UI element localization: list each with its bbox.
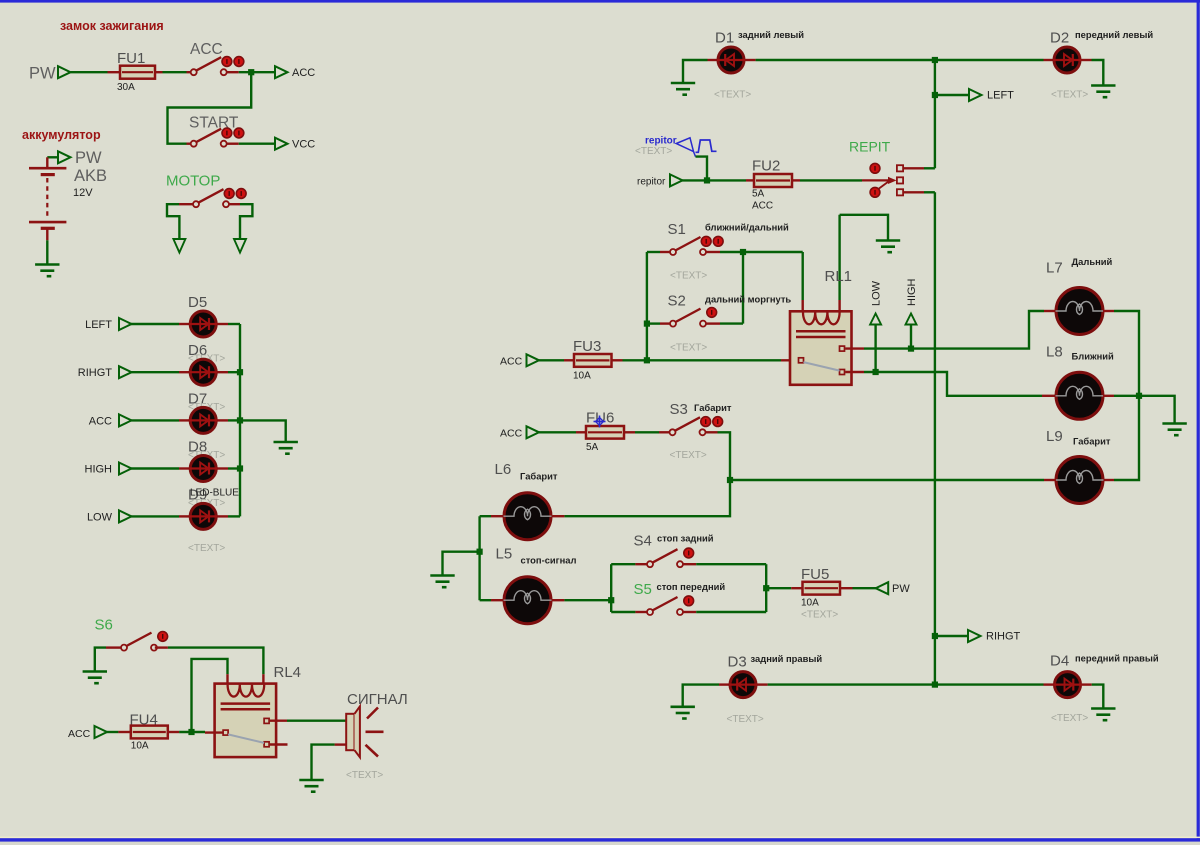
label S1 [668,221,686,238]
wire RL1 coil right vertical [838,215,840,300]
label FU6 [586,410,614,427]
wire LOW arrow stem [874,325,876,373]
svg-text:FU2: FU2 [752,158,780,175]
junction bus at D8 [237,465,243,471]
svg-text:<TEXT>: <TEXT> [346,770,383,781]
value 10A of FU4 [131,741,149,752]
label S2 [668,293,686,310]
wire L5 right lead [552,599,565,601]
wire S1 right lead [706,251,720,253]
svg-text:PW: PW [892,583,910,595]
svg-text:стоп передний: стоп передний [657,581,726,592]
wire START right lead [227,142,239,144]
wire to ACC output terminal [239,71,276,73]
svg-text:<TEXT>: <TEXT> [670,271,707,282]
svg-text:D3: D3 [728,654,747,671]
label "ближний/дальний" [705,222,789,233]
label "передний левый" [1075,29,1153,40]
svg-text:LED-BLUE: LED-BLUE [190,488,239,499]
junction L5 on S4-S5 left vertical [608,597,614,603]
label "Ближний" [1072,351,1115,362]
junction Габарит bus [727,477,733,483]
placeholder TEXT under D9 [188,543,225,554]
net label PW (input) [29,65,56,83]
wire MOTOR left lead [179,203,193,205]
horn speaker СИГНАЛ [346,706,383,757]
svg-text:<TEXT>: <TEXT> [635,146,672,157]
value 5A of FU2 [752,189,765,200]
svg-text:ACC: ACC [500,356,523,368]
junction FU3 wire [644,357,650,363]
wire ACC switch right lead [227,71,239,73]
terminal RIHGT [968,630,981,642]
wire S1 left lead [660,251,670,253]
label "Габарит" (S3) [694,402,732,413]
svg-text:ACC: ACC [68,728,91,740]
net label VCC [292,139,315,151]
svg-text:<TEXT>: <TEXT> [1051,713,1088,724]
switch START [191,128,244,147]
wire D1 to D2 [756,59,935,61]
label D2 [1050,30,1069,47]
svg-text:дальний моргнуть: дальний моргнуть [705,294,791,305]
wire terminal to FU3 [539,359,565,361]
wire FU2 right lead [792,179,800,181]
relay RL4 [215,684,277,758]
label L7 [1046,260,1063,277]
ground at D3 [671,706,695,719]
wire D1 right lead [745,59,756,61]
svg-text:10A: 10A [131,741,149,752]
LED D2 [1053,47,1081,73]
wire LEFT vertical from D1-D2 down to flasher [934,60,936,168]
placeholder TEXT of D8 [188,450,225,461]
placeholder TEXT of D2 [1051,90,1088,101]
wire ACC terminal to D7 [131,419,179,421]
label RL1 [825,268,853,285]
svg-text:D2: D2 [1050,30,1069,47]
junction S2 tap on S1 wire [740,249,746,255]
wire into START switch left contact [187,142,192,144]
placeholder TEXT of D7 [188,402,225,413]
wire D3 to ground [683,685,719,706]
wire MOTOR left zigzag down [167,204,179,239]
LED D4 [1054,672,1082,698]
placeholder TEXT of S1 [670,271,707,282]
wire FU3 right lead [612,359,623,361]
svg-text:Габарит: Габарит [1073,436,1111,447]
wire D6 anode lead [179,371,189,373]
switch S3 [670,417,723,436]
label FU1 [117,50,145,67]
wire D4 to ground [1092,685,1104,708]
wire L9 left lead [1044,479,1056,481]
top blue window border [0,0,1200,3]
wire D3 left lead [719,683,729,685]
wire D4 left lead [1044,683,1054,685]
terminal LEFT input [119,318,132,330]
lamp L8 [1056,372,1104,419]
svg-text:МОТОР: МОТОР [166,173,220,190]
wire Габарит bus to L9 [730,479,1044,481]
wire L7 right lead [1103,310,1114,312]
wire to VCC terminal [239,142,276,144]
wire to horn positive [287,720,346,722]
label START switch [189,115,239,132]
blue origin marker on FU6 [594,416,606,428]
wire D1 to ground [683,60,708,82]
wire S5 right lead [683,611,696,613]
wire LOW terminal to D9 [131,515,179,517]
wire D8 to cathode bus [228,467,240,469]
wire FU5 right lead [840,587,853,589]
junction bus at D7 [237,417,243,423]
svg-text:HIGH: HIGH [85,464,113,476]
label "стоп передний" [657,581,726,592]
wire flasher bottom contact lead [903,191,924,193]
net label LOW [87,511,113,523]
wire bus to ground [240,420,286,441]
wire generator to repitor net [696,157,708,181]
ground below flasher [876,240,900,253]
svg-text:repitor: repitor [645,136,677,147]
wire D9 cathode lead [217,515,228,517]
wire FU2 left lead [746,179,755,181]
value 30A of FU1 [117,82,135,93]
net label LEFT [85,319,112,331]
junction LOW tap [873,369,879,375]
lamp L6 [504,493,552,540]
wire L9 right lead [1103,479,1114,481]
svg-text:RIHGT: RIHGT [986,631,1021,643]
label D3 [728,654,747,671]
svg-text:стоп задний: стоп задний [657,533,714,544]
label D7 [188,390,207,407]
svg-text:repitor: repitor [637,177,666,188]
svg-text:<TEXT>: <TEXT> [727,714,764,725]
svg-text:LOW: LOW [871,280,883,306]
wire RL1 NC to L8 [864,372,1042,396]
label "передний правый" [1075,653,1159,664]
label D1 [715,30,734,47]
label S3 [670,401,688,418]
svg-text:Дальний: Дальний [1072,256,1113,267]
svg-text:L5: L5 [496,546,513,563]
wire S4 right lead [683,563,696,565]
wire D5 cathode lead [217,323,228,325]
wire FU6 right lead [624,431,635,433]
wire RL1 coil left lead [802,300,804,312]
svg-text:S1: S1 [668,221,686,238]
terminal LOW (up arrow) [870,314,881,325]
placeholder TEXT of D6 [188,354,225,365]
label D5 [188,294,207,311]
wire D2 to ground [1092,60,1104,85]
svg-text:HIGH: HIGH [906,278,918,306]
wire D7 anode lead [179,419,189,421]
wire S2 right lead [706,322,720,324]
svg-text:10A: 10A [573,371,591,382]
wire flasher top to LEFT vertical [924,167,935,169]
wire MOTOR right zigzag down [240,204,252,239]
title "аккумулятор" [22,128,101,142]
wire S6 left lead [106,646,121,648]
svg-text:5A: 5A [752,189,765,200]
ground at D2 [1091,85,1115,98]
svg-text:<TEXT>: <TEXT> [188,543,225,554]
flasher REPIT indicator dot down [870,187,880,197]
svg-text:S5: S5 [634,581,652,598]
wire S4-S5 left vertical [610,564,612,612]
wire S2 right vertical up [742,252,744,324]
fuse FU4 [131,726,168,739]
switch MOTOR [193,189,246,208]
ground of lamps [1162,423,1186,436]
wire S5 left lead [635,611,647,613]
LED D7 [189,407,217,433]
wire FU5 left lead [791,587,803,589]
svg-text:S4: S4 [634,533,652,550]
wire FU6 to S3 [635,431,659,433]
terminal PW input [58,66,71,78]
label ACC switch [190,41,223,58]
flasher REPIT indicator dot up [870,163,880,173]
flasher REPIT contacts [897,165,903,195]
wire L6 left to vertical [480,515,491,517]
wire right bus down to L9 [1114,396,1139,480]
placeholder TEXT of horn [346,770,383,781]
wire S1-S2 left vertical [646,252,648,360]
value ACC of FU2 [752,201,773,212]
lamp L7 [1056,288,1104,335]
svg-text:AKB: AKB [74,167,107,185]
wire L7 left lead [1044,310,1056,312]
wire S1 right to RL1 coil branch [720,251,803,253]
wire RL4 NO contact to horn [270,720,287,722]
net label ACC (output) [292,67,315,79]
wire ACC junction down to START switch [168,72,252,144]
value 12V of battery [73,187,93,199]
svg-text:30A: 30A [117,82,135,93]
label FU5 [801,566,829,583]
svg-text:<TEXT>: <TEXT> [1051,90,1088,101]
terminal PW (stop light feed) [876,582,889,594]
label D8 [188,439,207,456]
net label RIHGT [78,367,113,379]
net label ACC at FU6 [500,428,523,440]
svg-text:FU5: FU5 [801,566,829,583]
junction lamps ground tap [477,549,483,555]
ground at D1 [671,82,695,95]
svg-text:LEFT: LEFT [85,319,112,331]
label S4 [634,533,652,550]
wire FU1 left lead [108,71,121,73]
switch ACC (ignition) [191,57,244,76]
label LED-BLUE [190,488,239,499]
LED D5 [189,311,217,337]
label REPIT [849,139,891,155]
net label PW at FU5 [892,583,910,595]
wire HIGH terminal to D8 [131,467,179,469]
wire RL4 coil left lead [226,674,228,685]
svg-text:S2: S2 [668,293,686,310]
svg-text:аккумулятор: аккумулятор [22,128,101,142]
switch S4 [647,548,694,567]
svg-text:ACC: ACC [190,41,223,58]
svg-text:ACC: ACC [89,415,112,427]
wire LEFT terminal to D5 [131,323,179,325]
label "Габарит" (L6) [520,471,558,482]
wire L6 right lead [553,515,565,517]
node junction at ACC output [248,69,254,75]
LED D9 [189,503,217,529]
wire L5 to S4-S5 block [564,599,611,601]
wire terminal to FU6 [539,431,577,433]
svg-text:PW: PW [29,65,56,83]
placeholder TEXT of S3 [670,450,707,461]
wire S5 to right vertical [696,611,766,613]
junction HIGH tap [908,346,914,352]
wire FU6 left lead [576,431,587,433]
net label ACC [89,415,112,427]
svg-text:RIHGT: RIHGT [78,367,113,379]
ground at D4 [1091,708,1115,721]
wire flasher top contact lead [903,167,924,169]
bottom pale highlight line [0,837,1200,839]
wire S3 to Габарит junction [564,432,730,516]
svg-text:FU3: FU3 [573,338,601,355]
svg-text:ACC: ACC [500,428,523,440]
terminal repitor input [670,174,683,186]
junction S2 left [644,321,650,327]
placeholder TEXT of FU5 [801,610,838,621]
net label ACC at FU4 [68,728,91,740]
net label PW at battery [75,149,102,167]
svg-text:Габарит: Габарит [520,471,558,482]
svg-text:передний левый: передний левый [1075,29,1153,40]
junction FU4 / coil feed [188,729,194,735]
wire junction to D4 [935,683,1044,685]
net label HIGH [85,464,113,476]
wire FU4 right lead [168,731,179,733]
LED D8 [189,456,217,482]
junction LEFT feed on D1-D2 wire [932,57,938,63]
right blue window border [1197,0,1200,841]
wire to RIHGT terminal [935,635,969,637]
label MOTOP [166,173,220,190]
junction at RIHGT terminal [932,633,938,639]
svg-text:ACC: ACC [752,201,773,212]
svg-text:задний правый: задний правый [751,653,823,664]
LED D3 [729,672,757,698]
wire RL1 NO lead [845,347,864,349]
svg-text:<TEXT>: <TEXT> [714,90,751,101]
label FU2 [752,158,780,175]
wire S6 left to ground [95,648,106,671]
net label LOW [871,280,883,306]
svg-text:замок зажигания: замок зажигания [60,19,164,33]
label "задний правый" [751,653,823,664]
fuse FU1 [120,66,155,79]
net label LEFT [987,90,1014,102]
terminal ACC input FU3 [527,354,540,366]
switch S6 [121,632,168,651]
wire S3 right lead [705,431,717,433]
wire D1 left lead [708,59,718,61]
svg-text:L7: L7 [1046,260,1063,277]
switch S5 [647,596,694,615]
wire horn to ground [312,745,335,779]
wire D9 to cathode bus [228,515,240,517]
svg-text:стоп-сигнал: стоп-сигнал [521,555,577,566]
flasher REPIT pole arrow [862,177,897,189]
wire RL1 NC lead [845,371,864,373]
value 10A of FU5 [801,598,819,609]
label L9 [1046,428,1063,445]
terminal ACC input FU6 [527,426,540,438]
fuse FU5 [803,582,841,595]
wire RL4 NC contact stub [270,743,288,745]
placeholder TEXT of S2 [670,343,707,354]
wire D5 anode lead [179,323,189,325]
wire right bus to ground [1139,396,1175,423]
placeholder TEXT of D3 [727,714,764,725]
svg-text:S6: S6 [95,617,113,634]
placeholder TEXT of D9 [188,498,225,509]
wire D2 left lead [1044,59,1054,61]
net label RIHGT [986,631,1021,643]
svg-text:12V: 12V [73,187,93,199]
junction S4-S5 output [763,585,769,591]
wire S6 to RL4 coil [168,648,264,675]
wire to S5 left [611,611,635,613]
label L5 [496,546,513,563]
fuse FU3 [574,354,612,367]
net label HIGH [906,278,918,306]
wire D8 cathode lead [217,467,228,469]
wire flasher ground branch [840,215,888,240]
placeholder TEXT of generator [635,146,672,157]
wire RL4 coil left to FU4 node [192,659,228,732]
svg-text:<TEXT>: <TEXT> [670,343,707,354]
label "стоп задний" [657,533,714,544]
svg-text:L8: L8 [1046,344,1063,361]
wire terminal to FU4 [107,731,119,733]
wire RIGHT vertical long [934,192,936,684]
wire S4-S5 right vertical [765,564,767,612]
label "стоп-сигнал" [521,555,577,566]
label L8 [1046,344,1063,361]
fuse FU6 [586,426,624,439]
placeholder TEXT of D1 [714,90,751,101]
svg-text:Габарит: Габарит [694,402,732,413]
svg-text:D4: D4 [1050,653,1069,670]
svg-text:ACC: ACC [292,67,315,79]
wire FU4 to RL4 common [179,731,205,733]
LED D1 [717,47,745,73]
terminal RIHGT input [119,366,132,378]
svg-text:L9: L9 [1046,428,1063,445]
pulse generator symbol (blue) [676,138,716,157]
wire FU3 to RL1 common [623,359,782,361]
wire flasher bottom to RIGHT vertical [924,191,935,193]
wire S6 right lead [155,646,168,648]
wire into ACC switch left contact [187,71,192,73]
wire FU2 to flasher pole [800,179,862,181]
wire D3 to D4 [768,683,935,685]
wire horn negative lead [335,743,347,745]
svg-text:передний правый: передний правый [1075,653,1159,664]
